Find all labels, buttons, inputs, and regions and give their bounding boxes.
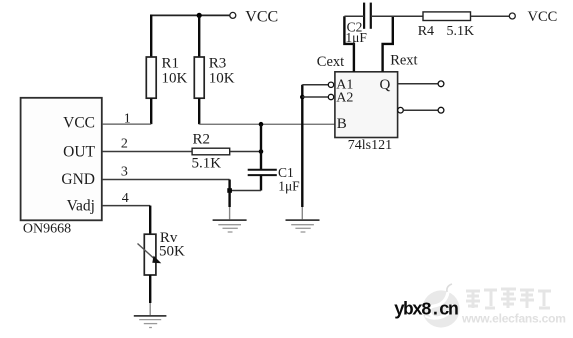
svg-text:10K: 10K — [209, 71, 235, 87]
svg-text:GND: GND — [61, 171, 95, 188]
svg-text:4: 4 — [122, 191, 129, 206]
svg-text:VCC: VCC — [528, 9, 558, 25]
svg-text:OUT: OUT — [63, 143, 95, 160]
svg-text:1μF: 1μF — [345, 30, 367, 45]
svg-text:3: 3 — [121, 164, 128, 179]
svg-text:www.elecfans.com: www.elecfans.com — [461, 312, 566, 326]
svg-text:R1: R1 — [162, 56, 180, 72]
svg-text:50K: 50K — [159, 244, 185, 260]
svg-text:A2: A2 — [336, 90, 353, 105]
svg-text:R2: R2 — [193, 132, 211, 148]
svg-text:2: 2 — [121, 137, 128, 152]
svg-text:5.1K: 5.1K — [447, 24, 475, 39]
svg-text:10K: 10K — [162, 71, 188, 87]
svg-text:Vadj: Vadj — [67, 197, 95, 214]
svg-text:R3: R3 — [209, 56, 227, 72]
svg-text:VCC: VCC — [245, 8, 278, 25]
svg-text:1μF: 1μF — [278, 179, 300, 194]
svg-text:ybx8.cn: ybx8.cn — [394, 301, 458, 321]
svg-text:Cext: Cext — [317, 54, 344, 70]
svg-text:74ls121: 74ls121 — [348, 138, 392, 153]
svg-text:5.1K: 5.1K — [192, 155, 222, 171]
svg-text:Q: Q — [380, 77, 391, 93]
svg-text:VCC: VCC — [63, 115, 95, 132]
svg-text:1: 1 — [124, 112, 131, 127]
svg-text:ON9668: ON9668 — [23, 221, 71, 236]
svg-text:Rext: Rext — [390, 53, 417, 69]
svg-text:B: B — [337, 116, 347, 132]
svg-text:R4: R4 — [418, 24, 434, 39]
